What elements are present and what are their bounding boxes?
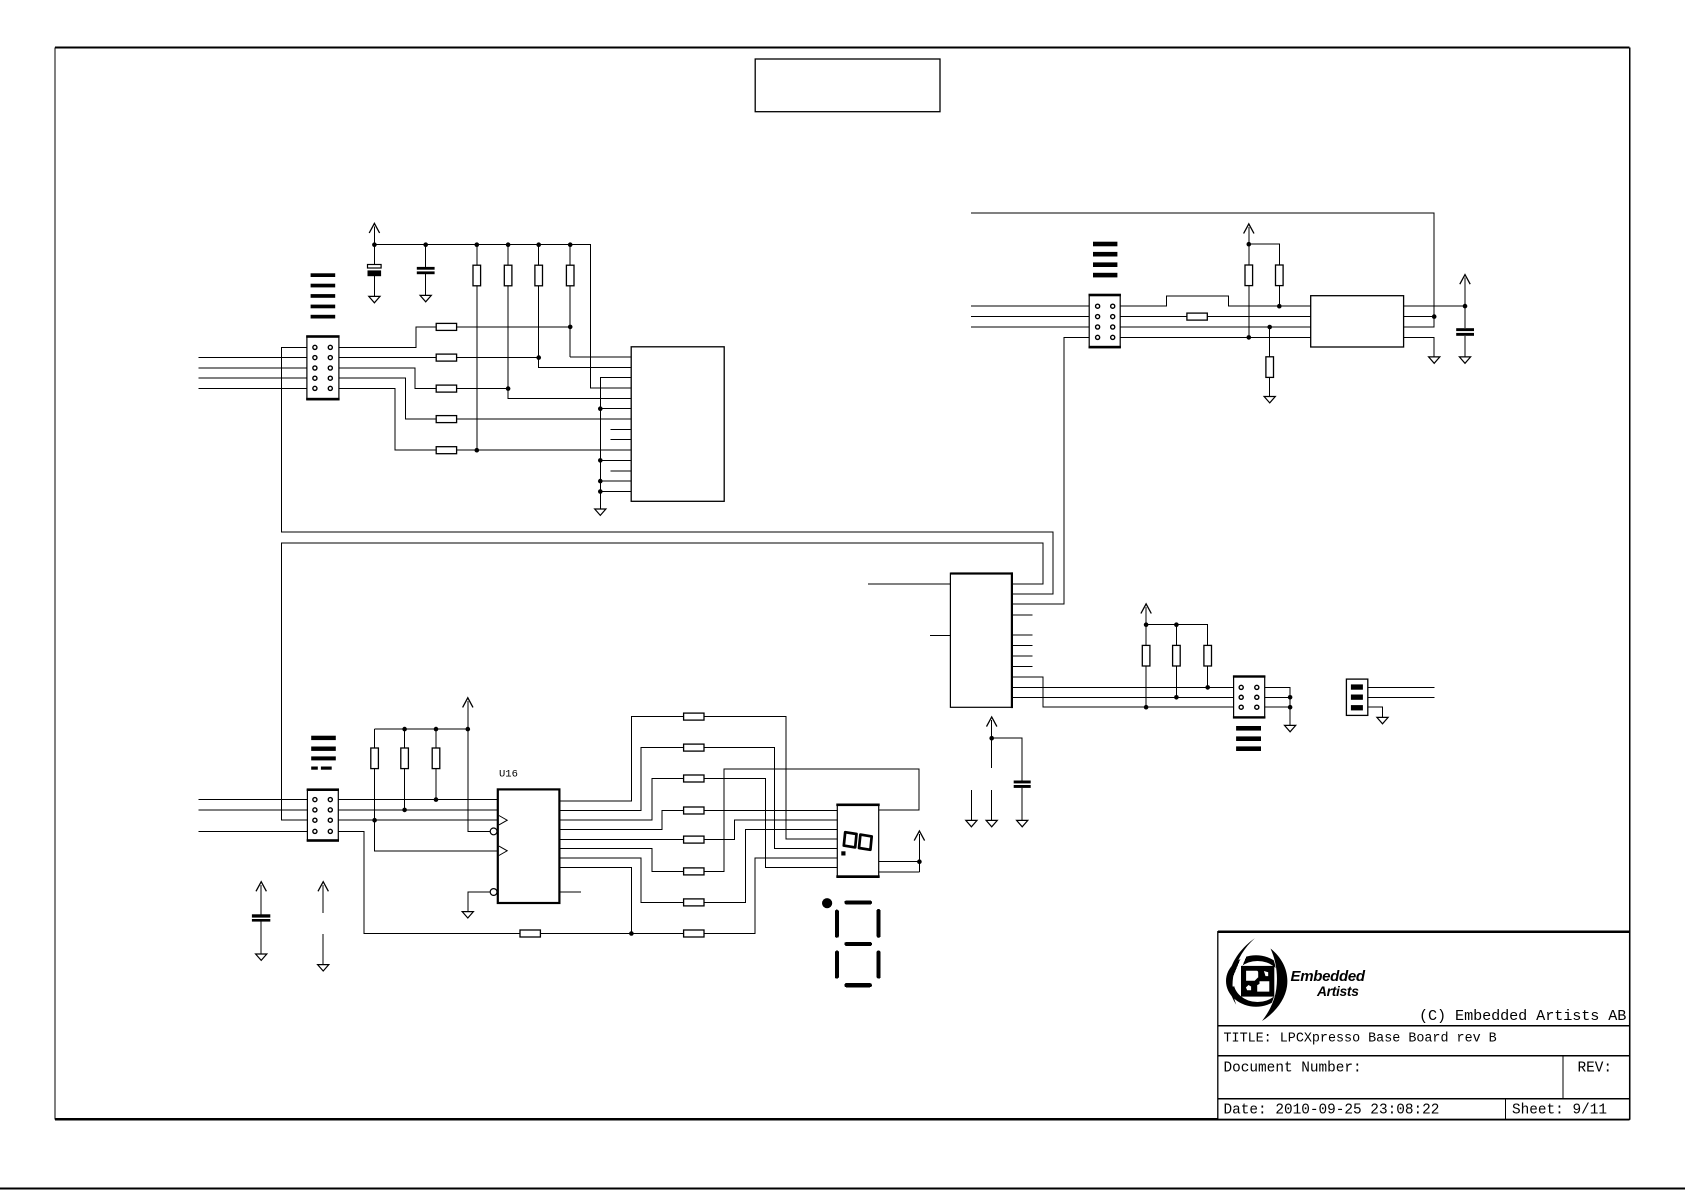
- redacted net labels (bars) left header: [311, 273, 336, 318]
- power symbol right of display: [914, 831, 924, 862]
- IC3 pin row1 right wire: [1404, 304, 1468, 309]
- title block outline: [1218, 932, 1630, 1120]
- document number label: [1224, 1061, 1362, 1077]
- series resistor RS5 row5: [339, 388, 631, 453]
- resistor RM2 (x=1176.4): [1173, 625, 1181, 698]
- resistor RB2 (x=404.6): [401, 729, 409, 812]
- ground right of IC3: [1429, 357, 1440, 363]
- segment resistor R4: [684, 807, 704, 814]
- ground bus left of IC1: [598, 378, 631, 509]
- wire J2 row3 right: [1120, 325, 1311, 330]
- ground below J3: [1285, 725, 1296, 731]
- wire J1 row2 left stub: [199, 357, 307, 359]
- U16 clock pin triangle 2: [499, 846, 507, 855]
- wire U16 p7 to R7: [559, 858, 683, 902]
- ground below C-pol: [369, 296, 380, 302]
- wire R6 loop to display right pin: [704, 769, 919, 871]
- big 7-segment figure: [837, 903, 879, 986]
- wire R8 to display p6: [704, 858, 837, 934]
- resistor RM1 (x=1146.1): [1142, 645, 1150, 707]
- wire J5 row1 to U16: [338, 799, 498, 801]
- pull-up resistor RA2: [504, 245, 512, 399]
- J4 row2 wire: [1368, 696, 1435, 698]
- power symbol top-right: [1244, 224, 1280, 265]
- pull-up resistor RA3: [535, 245, 543, 368]
- wire U16 p1 to R1: [559, 717, 683, 801]
- ground below IC1 bus: [595, 509, 606, 515]
- series resistor RS4 row4: [339, 378, 631, 422]
- wire R4 to display p1: [704, 810, 837, 812]
- IC2 box: [950, 572, 1013, 708]
- capacitor C4 below IC2: [992, 738, 1031, 820]
- Embedded Artists logo: [1226, 938, 1366, 1021]
- segment resistor R8: [684, 930, 704, 937]
- big 7-segment decimal point: [822, 898, 832, 908]
- resistor RT4 (x=1269.7 to ground): [1266, 327, 1274, 397]
- redacted net labels (bars) below J3: [1236, 726, 1261, 751]
- ground stub below IC2 left: [966, 790, 977, 827]
- pull-up resistor RA4: [566, 245, 574, 357]
- IC3 box: [1311, 296, 1404, 347]
- sheet text: [1512, 1103, 1607, 1119]
- wire J5 row2 to U16: [338, 809, 498, 811]
- segment resistor R2: [684, 744, 704, 751]
- wire net B: J5 row3 to IC2: [282, 543, 1043, 820]
- connector J2 2x4 header: [1089, 294, 1121, 349]
- svg-text:Artists: Artists: [1316, 984, 1359, 999]
- IC1 stub pin8: [610, 428, 631, 430]
- display decimal point: [841, 851, 845, 855]
- power rail wire top-left: [374, 245, 631, 388]
- power symbol below IC2: [987, 717, 997, 768]
- redacted net labels (bars) top-right: [1093, 242, 1117, 278]
- J3 right wires to ground: [1265, 687, 1293, 725]
- wire U16 p6 to R6: [559, 849, 683, 872]
- wire R2 to display p5: [704, 748, 837, 849]
- wire U16 p5 to R5: [559, 839, 683, 841]
- power rail above U16: [375, 727, 468, 732]
- resistor RT2 (x=1248.8): [1245, 265, 1253, 337]
- U16 inversion bubble pin MR: [490, 828, 497, 835]
- power symbol far right: [1460, 275, 1470, 329]
- wire R1 to display p4: [704, 717, 837, 839]
- wire net A: J1 row1 to IC2: [282, 347, 1053, 594]
- copyright text: [1419, 1007, 1626, 1025]
- display digit glyph: [844, 832, 872, 850]
- ground below RT4: [1264, 397, 1275, 403]
- IC2 left stub: [930, 634, 950, 636]
- U16 right stub: [559, 891, 581, 893]
- junction dots on rail: [372, 242, 572, 247]
- svg-text:Date: 2010-09-25 23:08:22: Date: 2010-09-25 23:08:22: [1224, 1103, 1440, 1119]
- J4 row1 wire: [1368, 686, 1435, 688]
- display right wires to power: [879, 859, 922, 871]
- capacitor C5 with power and ground: [252, 882, 270, 954]
- segment resistor R3: [684, 775, 704, 782]
- wire IC2 to J3 row1: [1012, 685, 1233, 690]
- dashed power-to-ground symbol: [318, 882, 328, 965]
- resistor RB3 (x=436.0): [432, 729, 440, 802]
- wire IC2 to J3 row3: [1012, 677, 1233, 710]
- display box: [836, 804, 879, 878]
- ground stub below IC2 center: [986, 790, 997, 827]
- connector J5 2x4 header: [307, 788, 339, 841]
- wire J5 row3 to U16 clock: [338, 819, 498, 821]
- resistor RB1 (x=374.6): [371, 729, 379, 851]
- svg-text:Embedded: Embedded: [1291, 968, 1366, 985]
- series resistor RT1 on row2: [1120, 313, 1311, 320]
- resistor RM3 (x=1207.7): [1204, 645, 1212, 687]
- sheet note box (empty rectangle top center): [755, 59, 940, 112]
- wire R3 to display p7: [704, 779, 837, 868]
- wire J5 row1 left stub: [199, 799, 308, 801]
- IC3 pin row2 right wire: [1404, 316, 1435, 318]
- wire U16 p4 to R4: [559, 811, 683, 830]
- wire RA4 to IC1 pin1: [570, 356, 631, 358]
- rev label: [1578, 1061, 1613, 1077]
- U16 label: [499, 768, 518, 780]
- capacitor C-pol top-left: [368, 265, 382, 297]
- svg-text:TITLE: LPCXpresso Base Board: TITLE: LPCXpresso Base Board rev B: [1224, 1032, 1497, 1047]
- svg-text:(C) Embedded Artists AB: (C) Embedded Artists AB: [1419, 1007, 1626, 1025]
- series resistor RS3 row3: [339, 368, 631, 398]
- wire J1 row3 left stub: [199, 367, 307, 369]
- capacitor C2 top-left: [417, 245, 435, 296]
- segment resistor R5: [684, 836, 704, 843]
- IC3 pin row4 right wire to ground: [1404, 337, 1435, 357]
- wire J5 row2 left stub: [199, 809, 308, 811]
- resistor RT3 (x=1279.3): [1276, 265, 1284, 309]
- svg-text:Sheet: 9/11: Sheet: 9/11: [1512, 1103, 1607, 1119]
- power symbol VCC top-left: [369, 223, 379, 264]
- top long wire net to IC3: [971, 213, 1436, 327]
- wire R7 to display p3: [704, 830, 837, 903]
- ground below C2: [420, 295, 431, 301]
- ground below C4: [1017, 820, 1028, 826]
- wire J2 row1 left: [971, 305, 1089, 307]
- IC2 right stub pins: [1012, 615, 1032, 666]
- redacted net labels (bars) bottom-left: [311, 736, 336, 770]
- wire J1 row4 left stub: [199, 377, 307, 379]
- J4 row3 wire: [1368, 707, 1383, 717]
- wire J2 row2 left: [971, 316, 1089, 318]
- connector J1 2x5 header: [306, 335, 339, 400]
- date text: [1224, 1103, 1440, 1119]
- series resistor RS1 row1: [339, 323, 573, 347]
- ground below C3: [1459, 357, 1470, 363]
- U16 inversion bubble pin OE: [468, 889, 497, 912]
- ground below dashed symbol: [318, 965, 329, 971]
- power symbol above U16: [463, 698, 491, 832]
- IC1 stub pin12: [610, 470, 631, 472]
- wire J2 row3 left: [971, 326, 1089, 328]
- IC1 stub pin9: [610, 439, 631, 441]
- power symbol right of IC2: [1141, 604, 1208, 646]
- capacitor C3 far right: [1456, 328, 1474, 357]
- wire IC2 to J3 row2: [1012, 695, 1233, 700]
- series resistor RS2 row2: [339, 354, 631, 367]
- segment resistor R1: [684, 713, 704, 720]
- IC2 left pin wire: [868, 583, 950, 585]
- wire U16 p2 to R2: [559, 748, 683, 811]
- svg-text:Document Number:: Document Number:: [1224, 1061, 1362, 1077]
- connector J3 2x3 header: [1233, 675, 1266, 718]
- svg-text:U16: U16: [499, 768, 518, 780]
- wire J1 row5 left stub: [199, 387, 307, 389]
- wire U16 p3 to R3: [559, 779, 683, 821]
- wire net C: J2 row4 to IC2: [1012, 337, 1089, 604]
- series resistor RC on bottom net: [520, 930, 684, 937]
- IC1 box: [631, 347, 724, 502]
- svg-text:REV:: REV:: [1578, 1061, 1613, 1077]
- wire J2 row1 right with jog to IC3: [1120, 296, 1311, 306]
- bottom net wire from J5 row4: [338, 831, 520, 933]
- wire U16 p8 to bottom net: [559, 868, 633, 936]
- wire R5 to display p2: [704, 820, 837, 840]
- U16 box: [498, 789, 560, 903]
- segment resistor R7: [684, 899, 704, 906]
- wire J2 row4 right: [1120, 335, 1311, 340]
- ground below U16 OE: [462, 912, 473, 918]
- connector J4 1x3: [1346, 679, 1367, 715]
- U16 clock pin triangle 1: [499, 816, 507, 825]
- segment resistor R6: [684, 868, 704, 875]
- title text: [1224, 1032, 1497, 1047]
- wire to U16 clock2: [375, 820, 498, 851]
- ground below J4: [1377, 717, 1388, 723]
- ground below C5: [256, 954, 267, 960]
- wire J5 row4 left stub: [199, 830, 308, 832]
- pull-up resistor RA1: [473, 245, 481, 451]
